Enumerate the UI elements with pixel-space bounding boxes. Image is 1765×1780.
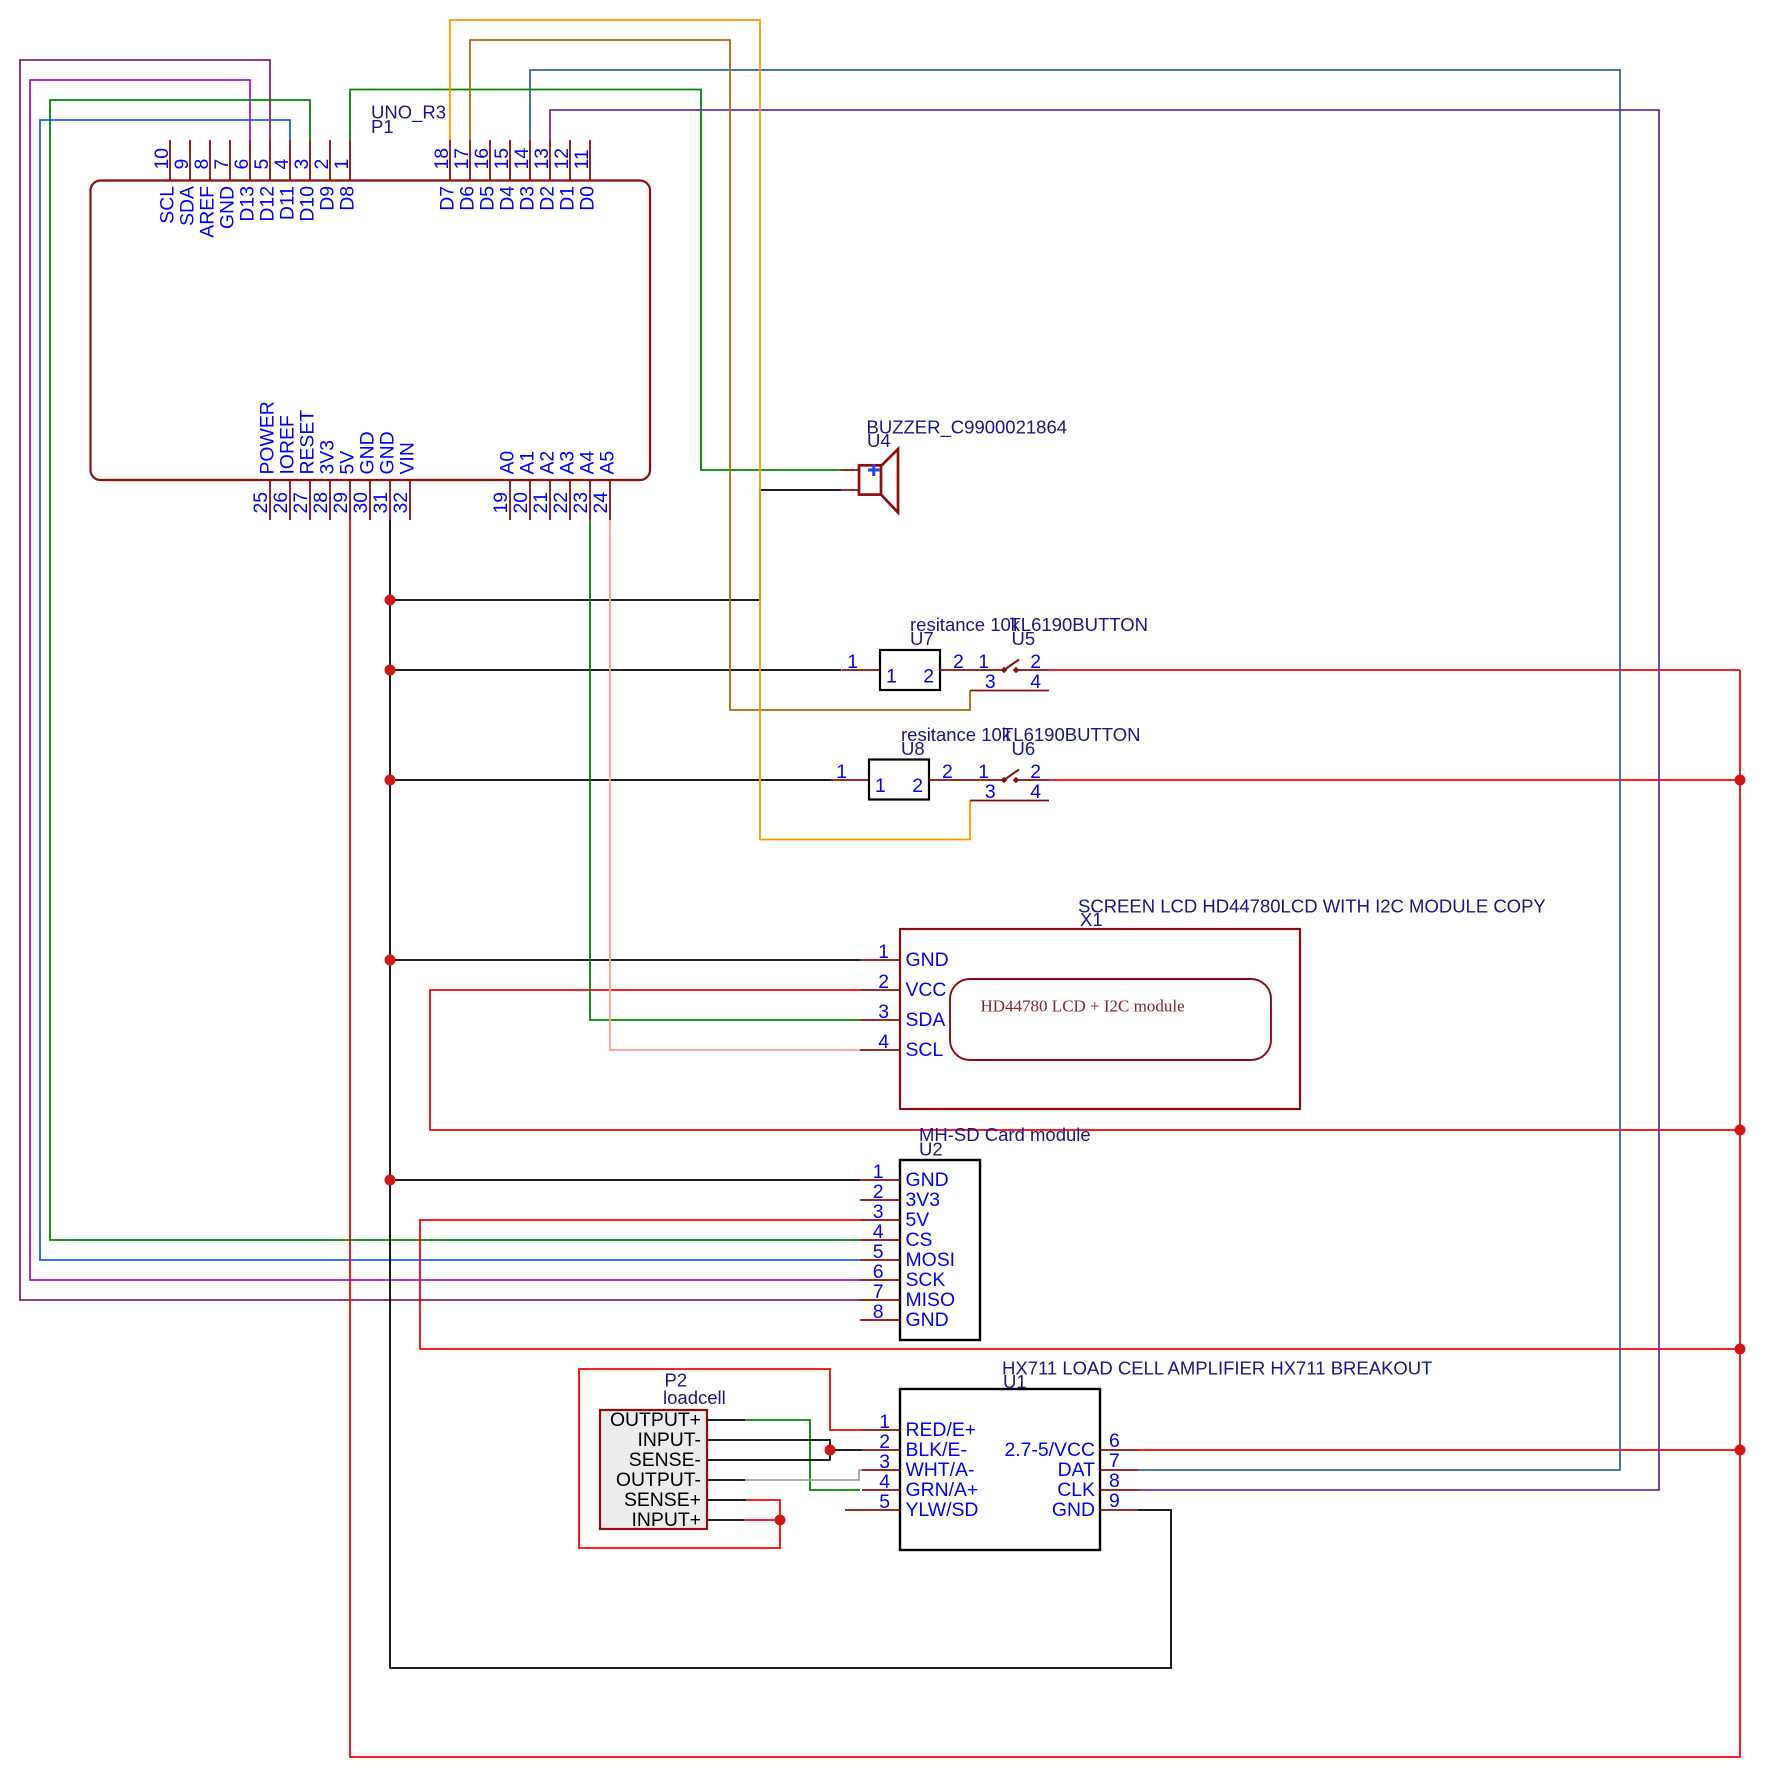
svg-text:SENSE-: SENSE- [629, 1449, 701, 1471]
svg-text:D5: D5 [477, 186, 499, 211]
svg-text:OUTPUT+: OUTPUT+ [610, 1409, 701, 1431]
svg-text:CS: CS [906, 1229, 933, 1251]
svg-text:1: 1 [878, 941, 889, 963]
svg-text:DAT: DAT [1058, 1459, 1095, 1481]
svg-text:U4: U4 [867, 430, 891, 451]
svg-text:4: 4 [1030, 781, 1041, 803]
svg-text:18: 18 [431, 148, 453, 170]
svg-text:1: 1 [331, 159, 353, 170]
svg-text:POWER: POWER [257, 401, 279, 474]
svg-text:6: 6 [873, 1261, 884, 1283]
svg-text:GND: GND [906, 949, 949, 971]
svg-text:4: 4 [1030, 671, 1041, 693]
svg-text:D10: D10 [297, 186, 319, 222]
svg-text:7: 7 [211, 159, 233, 170]
svg-text:SENSE+: SENSE+ [624, 1489, 701, 1511]
svg-text:HD44780 LCD + I2C module: HD44780 LCD + I2C module [981, 997, 1185, 1016]
svg-text:20: 20 [510, 492, 532, 514]
svg-text:4: 4 [878, 1031, 889, 1053]
svg-text:OUTPUT-: OUTPUT- [616, 1469, 701, 1491]
svg-text:1: 1 [875, 775, 886, 797]
svg-text:9: 9 [171, 159, 193, 170]
svg-text:24: 24 [590, 492, 612, 514]
svg-text:2: 2 [923, 666, 934, 688]
svg-text:5V: 5V [906, 1209, 930, 1231]
svg-text:SDA: SDA [906, 1009, 946, 1031]
svg-text:GND: GND [217, 186, 239, 229]
svg-text:U5: U5 [1012, 628, 1036, 649]
svg-text:1: 1 [879, 1411, 890, 1433]
svg-text:3: 3 [878, 1001, 889, 1023]
svg-text:SCREEN LCD HD44780LCD WITH I2C: SCREEN LCD HD44780LCD WITH I2C MODULE CO… [1078, 896, 1546, 917]
svg-text:U2: U2 [919, 1139, 943, 1160]
svg-text:16: 16 [471, 148, 493, 170]
svg-text:6: 6 [231, 159, 253, 170]
svg-text:2: 2 [1030, 761, 1041, 783]
svg-text:1: 1 [873, 1161, 884, 1183]
svg-text:13: 13 [531, 148, 553, 170]
svg-text:8: 8 [191, 159, 213, 170]
svg-text:A2: A2 [537, 451, 559, 475]
svg-text:U7: U7 [910, 628, 934, 649]
svg-text:P1: P1 [371, 116, 394, 137]
svg-text:INPUT+: INPUT+ [632, 1509, 702, 1531]
svg-text:14: 14 [511, 148, 533, 170]
svg-text:X1: X1 [1080, 909, 1103, 930]
svg-text:D4: D4 [497, 186, 519, 211]
svg-text:1: 1 [847, 651, 858, 673]
svg-text:GND: GND [906, 1169, 949, 1191]
svg-text:26: 26 [270, 492, 292, 514]
svg-text:D0: D0 [577, 186, 599, 211]
svg-text:25: 25 [250, 492, 272, 514]
svg-text:WHT/A-: WHT/A- [906, 1459, 975, 1481]
svg-text:1: 1 [836, 761, 847, 783]
svg-text:19: 19 [490, 492, 512, 514]
svg-text:1: 1 [978, 651, 989, 673]
svg-text:BUZZER_C9900021864: BUZZER_C9900021864 [867, 417, 1068, 439]
svg-text:GND: GND [906, 1309, 949, 1331]
svg-text:IOREF: IOREF [277, 415, 299, 474]
svg-text:2: 2 [311, 159, 333, 170]
svg-text:MISO: MISO [906, 1289, 956, 1311]
svg-text:loadcell: loadcell [663, 1387, 726, 1408]
svg-text:GND: GND [377, 431, 399, 474]
svg-text:9: 9 [1109, 1490, 1120, 1512]
svg-text:15: 15 [491, 148, 513, 170]
svg-text:5: 5 [251, 159, 273, 170]
svg-text:27: 27 [290, 492, 312, 514]
svg-text:4: 4 [879, 1471, 890, 1493]
svg-text:RESET: RESET [297, 410, 319, 475]
svg-text:28: 28 [310, 492, 332, 514]
svg-text:A5: A5 [597, 451, 619, 475]
svg-text:A1: A1 [517, 451, 539, 475]
svg-text:GRN/A+: GRN/A+ [906, 1479, 979, 1501]
svg-text:5: 5 [873, 1241, 884, 1263]
svg-text:CLK: CLK [1057, 1479, 1095, 1501]
svg-text:D6: D6 [457, 186, 479, 211]
svg-text:U8: U8 [901, 738, 925, 759]
svg-text:1: 1 [978, 761, 989, 783]
svg-text:A0: A0 [497, 451, 519, 475]
svg-text:D3: D3 [517, 186, 539, 211]
svg-text:6: 6 [1109, 1430, 1120, 1452]
svg-text:2: 2 [912, 775, 923, 797]
svg-text:3V3: 3V3 [317, 440, 339, 475]
svg-text:3: 3 [985, 671, 996, 693]
svg-text:A3: A3 [557, 451, 579, 475]
svg-text:11: 11 [571, 149, 593, 169]
svg-text:2: 2 [879, 1431, 890, 1453]
svg-text:D12: D12 [257, 186, 279, 222]
svg-text:7: 7 [873, 1281, 884, 1303]
svg-text:BLK/E-: BLK/E- [906, 1439, 967, 1461]
svg-text:4: 4 [873, 1221, 884, 1243]
svg-text:D2: D2 [537, 186, 559, 211]
svg-text:3: 3 [985, 781, 996, 803]
svg-text:30: 30 [350, 492, 372, 514]
svg-text:SCK: SCK [906, 1269, 946, 1291]
svg-text:MH-SD Card module: MH-SD Card module [919, 1124, 1091, 1145]
svg-text:A4: A4 [577, 451, 599, 475]
svg-text:AREF: AREF [197, 186, 219, 238]
svg-text:VIN: VIN [397, 442, 419, 474]
svg-text:SDA: SDA [177, 186, 199, 226]
svg-text:7: 7 [1109, 1450, 1120, 1472]
svg-text:GND: GND [357, 431, 379, 474]
svg-text:D11: D11 [277, 186, 299, 220]
svg-text:2: 2 [873, 1181, 884, 1203]
svg-text:MOSI: MOSI [906, 1249, 956, 1271]
svg-text:2: 2 [878, 971, 889, 993]
svg-text:INPUT-: INPUT- [637, 1429, 701, 1451]
svg-text:U1: U1 [1003, 1371, 1027, 1392]
svg-text:12: 12 [551, 148, 573, 170]
svg-text:3: 3 [873, 1201, 884, 1223]
svg-text:1: 1 [886, 666, 897, 688]
svg-text:D7: D7 [437, 186, 459, 211]
svg-text:5V: 5V [337, 451, 359, 475]
svg-text:8: 8 [1109, 1470, 1120, 1492]
svg-text:3V3: 3V3 [906, 1189, 941, 1211]
svg-text:29: 29 [330, 492, 352, 514]
svg-text:21: 21 [530, 492, 552, 514]
svg-text:2.7-5/VCC: 2.7-5/VCC [1004, 1439, 1095, 1461]
svg-text:VCC: VCC [906, 979, 947, 1001]
svg-text:8: 8 [873, 1301, 884, 1323]
svg-text:D9: D9 [317, 186, 339, 211]
svg-text:RED/E+: RED/E+ [906, 1419, 977, 1441]
svg-text:SCL: SCL [906, 1039, 944, 1061]
svg-text:3: 3 [879, 1451, 890, 1473]
svg-text:2: 2 [1030, 651, 1041, 673]
svg-text:23: 23 [570, 492, 592, 514]
svg-text:D1: D1 [557, 186, 579, 211]
svg-text:HX711 LOAD CELL AMPLIFIER HX71: HX711 LOAD CELL AMPLIFIER HX711 BREAKOUT [1002, 1358, 1432, 1379]
svg-text:4: 4 [271, 159, 293, 170]
svg-text:U6: U6 [1012, 738, 1036, 759]
svg-text:10: 10 [151, 148, 173, 170]
svg-text:2: 2 [942, 761, 953, 783]
svg-text:17: 17 [451, 148, 473, 170]
svg-text:3: 3 [291, 159, 313, 170]
svg-text:5: 5 [879, 1491, 890, 1513]
svg-text:32: 32 [390, 492, 412, 514]
svg-text:22: 22 [550, 492, 572, 514]
svg-text:D13: D13 [237, 186, 259, 222]
svg-text:31: 31 [370, 492, 392, 514]
svg-text:SCL: SCL [157, 186, 179, 224]
svg-text:2: 2 [953, 651, 964, 673]
svg-text:GND: GND [1052, 1499, 1095, 1521]
svg-text:YLW/SD: YLW/SD [906, 1499, 979, 1521]
svg-text:D8: D8 [337, 186, 359, 211]
